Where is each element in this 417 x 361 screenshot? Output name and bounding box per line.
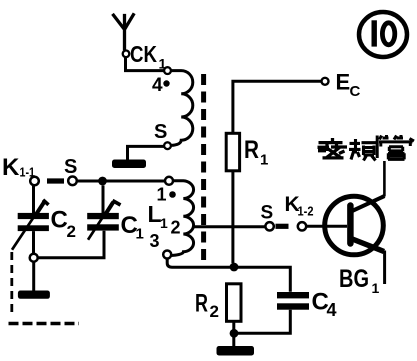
svg-text:2: 2 xyxy=(171,218,181,238)
svg-text:S: S xyxy=(64,156,77,178)
connector CK1 xyxy=(123,51,130,58)
svg-text:R: R xyxy=(244,136,259,164)
junction (R2 C4 ground) xyxy=(230,329,239,338)
svg-text:1: 1 xyxy=(372,280,380,296)
terminal (C2 bottom) xyxy=(30,254,38,262)
svg-text:4: 4 xyxy=(327,300,337,320)
transformer primary bottom terminal xyxy=(164,142,171,149)
switch K1-2 blade xyxy=(276,224,289,229)
svg-text:C: C xyxy=(51,207,68,234)
wire to base xyxy=(306,225,347,228)
terminal Ec xyxy=(322,78,329,85)
svg-text:E: E xyxy=(336,70,351,95)
svg-text:1: 1 xyxy=(160,215,168,231)
wire to ground xyxy=(32,262,35,291)
inductor L1 winding xyxy=(171,181,193,256)
polarity dot (L1) xyxy=(169,191,176,198)
transformer primary top terminal xyxy=(164,67,171,74)
junction (C1 top) xyxy=(98,177,107,186)
svg-text:S: S xyxy=(154,121,167,143)
switch K1-2 contact xyxy=(265,222,273,230)
wire CK1 to transformer xyxy=(126,57,164,71)
wire rail to L1 xyxy=(77,180,166,183)
variable capacitor C2 arrow xyxy=(12,201,45,250)
switch K1-2 contact 2 xyxy=(298,222,306,230)
inductor L1 bottom terminal xyxy=(163,251,171,259)
variable capacitor C2 plates xyxy=(18,213,49,219)
label bianpinguan (Chinese) char pin xyxy=(349,139,378,161)
wire R2 to ground xyxy=(232,321,235,346)
svg-text:BG: BG xyxy=(339,265,369,293)
gang coupling (dashed horizontal) xyxy=(9,322,80,325)
label bianpinguan (Chinese) char bian xyxy=(318,138,348,158)
svg-text:CK: CK xyxy=(130,41,157,67)
capacitor C4 plates xyxy=(277,292,309,298)
wire K1-1 to C2 xyxy=(32,185,35,213)
svg-text:4: 4 xyxy=(152,75,163,96)
junction (R1 R2 L1) xyxy=(230,263,239,272)
ground (C2) xyxy=(18,291,50,299)
transistor BG1 circle xyxy=(325,196,384,255)
svg-text:2: 2 xyxy=(210,302,219,321)
svg-text:K: K xyxy=(2,154,20,181)
bottom rail C2 to C1 xyxy=(38,231,104,258)
wire to ground xyxy=(128,146,165,159)
figure number badge circle xyxy=(359,12,407,57)
switch K1-1 contact xyxy=(30,177,39,186)
switch K1-1 blade xyxy=(47,178,64,183)
ground (antenna coil) xyxy=(112,160,146,169)
svg-text:1-2: 1-2 xyxy=(298,204,314,219)
svg-text:1: 1 xyxy=(260,152,268,169)
variable capacitor C1 arrow xyxy=(88,202,113,240)
supply rail to Ec xyxy=(233,81,322,133)
label bianpinguan (Chinese) char guan xyxy=(377,135,414,159)
collector lead / label leader xyxy=(383,161,386,197)
emitter lead xyxy=(383,251,386,285)
svg-text:1: 1 xyxy=(136,226,144,243)
antenna xyxy=(113,13,135,50)
transistor BG1 emitter stroke xyxy=(351,239,384,252)
wire junction to C1 xyxy=(102,185,105,213)
ferrite core (dashed) xyxy=(201,74,206,262)
svg-text:2: 2 xyxy=(67,222,76,241)
polarity dot (antenna winding) xyxy=(163,80,169,86)
svg-text:S: S xyxy=(261,203,274,224)
figure number 10 xyxy=(372,20,377,46)
variable capacitor C1 plates xyxy=(87,213,119,219)
transistor BG1 collector stroke xyxy=(351,196,385,212)
gang coupling (dashed vertical) xyxy=(10,252,13,316)
transformer primary winding xyxy=(171,71,193,146)
transistor BG1 base bar xyxy=(347,206,354,244)
svg-text:3: 3 xyxy=(150,231,160,251)
wire R1 to junction xyxy=(231,171,234,263)
inductor L1 top terminal xyxy=(165,177,173,185)
switch K1-1 contact S xyxy=(68,177,77,186)
wire L1 to junction and C4 xyxy=(167,259,290,292)
bottom rail to C4 xyxy=(238,310,290,334)
resistor R2 xyxy=(227,284,242,322)
wire C2 to terminal xyxy=(32,231,35,254)
ground (emitter network) xyxy=(217,346,255,356)
svg-text:C: C xyxy=(350,83,361,100)
svg-text:R: R xyxy=(195,290,208,318)
tap 2 wire xyxy=(193,225,266,228)
resistor R1 xyxy=(226,133,239,171)
